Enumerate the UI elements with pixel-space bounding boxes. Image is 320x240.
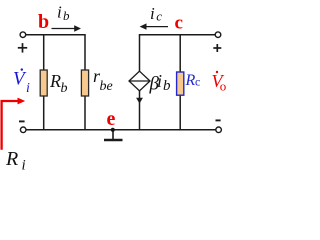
wire branch rbe: [84, 35, 86, 130]
svg-text:b: b: [63, 8, 70, 23]
terminal input bottom: [20, 127, 26, 133]
svg-text:R: R: [185, 72, 196, 89]
svg-text:i: i: [57, 3, 62, 22]
minus sign output: [216, 119, 221, 121]
input resistance arrow Ri: [2, 98, 26, 150]
label Rb: [49, 71, 68, 96]
svg-text:V: V: [13, 69, 27, 90]
plus sign output: [213, 44, 221, 52]
plus sign input: [18, 43, 27, 53]
svg-text:c: c: [156, 9, 162, 24]
svg-text:b: b: [61, 81, 68, 96]
controlled current source diamond: [129, 71, 150, 91]
wire top-right (c rail): [139, 34, 216, 36]
wire branch Rb: [43, 35, 45, 130]
label ib: [57, 3, 70, 23]
terminal input top: [20, 32, 26, 38]
terminal output bottom: [216, 127, 222, 133]
ground: [104, 130, 123, 140]
svg-text:i: i: [157, 71, 162, 91]
current arrow ib: [52, 25, 82, 31]
svg-text:R: R: [49, 71, 61, 91]
node label e: [107, 108, 116, 130]
svg-text:i: i: [150, 4, 155, 23]
node label c: [175, 13, 183, 34]
svg-text:e: e: [107, 108, 116, 130]
svg-text:b: b: [163, 78, 171, 94]
svg-text:i: i: [22, 158, 26, 171]
resistor Rb: [40, 70, 47, 96]
svg-text:o: o: [220, 79, 227, 94]
svg-text:i: i: [26, 81, 30, 96]
resistor Rc: [177, 72, 184, 95]
label beta ib: [149, 71, 172, 95]
terminal output top: [215, 32, 221, 38]
label ic: [150, 4, 162, 24]
current arrow ic: [140, 23, 168, 29]
minus sign input: [19, 120, 25, 122]
label Ri: [5, 148, 26, 173]
resistor rbe: [81, 70, 88, 96]
wire branch current source: [139, 35, 141, 130]
label rbe: [93, 66, 113, 94]
label Vo: [212, 71, 227, 94]
label Rc: [185, 72, 201, 89]
node e junction dot: [111, 128, 115, 132]
wire branch Rc: [179, 35, 181, 130]
svg-text:c: c: [175, 13, 183, 34]
svg-text:be: be: [100, 79, 113, 94]
node label b: [38, 11, 49, 33]
label Vi: [13, 68, 30, 96]
svg-text:c: c: [195, 75, 200, 89]
current source arrow: [136, 98, 143, 104]
wire bottom (e rail): [26, 129, 216, 131]
svg-text:b: b: [38, 11, 49, 33]
svg-text:R: R: [5, 148, 18, 170]
wire top-left (b rail): [26, 34, 86, 36]
